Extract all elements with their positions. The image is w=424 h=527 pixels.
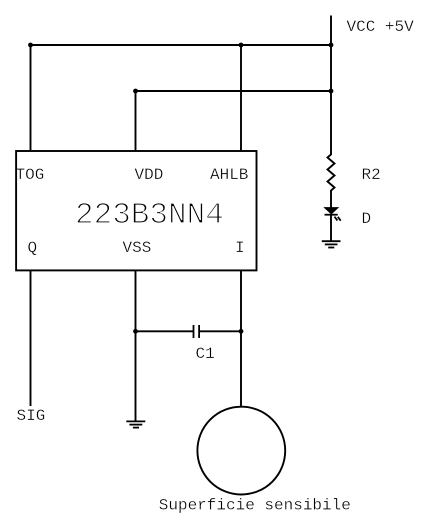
svg-text:Superficie sensibile: Superficie sensibile	[159, 497, 351, 515]
svg-text:Q: Q	[28, 239, 38, 257]
svg-text:D: D	[362, 210, 372, 228]
wire LED to ground	[330, 215, 332, 241]
junction dot AHLB on VCC rail	[239, 43, 244, 48]
svg-text:223B3NN4: 223B3NN4	[75, 198, 224, 233]
wire Q pin to SIG	[30, 270, 32, 406]
junction dot VCC wire on top rail	[329, 43, 334, 48]
svg-text:VCC +5V: VCC +5V	[347, 18, 415, 36]
svg-text:SIG: SIG	[17, 407, 46, 425]
svg-text:C1: C1	[196, 345, 215, 363]
junction dot VDD rail corner	[133, 89, 138, 94]
svg-text:R2: R2	[362, 166, 381, 184]
svg-text:TOG: TOG	[16, 166, 45, 184]
junction dot VCC wire on second rail	[329, 89, 334, 94]
junction dot VSS capacitor	[133, 329, 138, 334]
IC U1 223B3NN4 body	[16, 151, 256, 270]
LED D	[325, 208, 341, 221]
wire AHLB pin vertical	[240, 45, 242, 151]
wire capacitor left	[136, 330, 194, 332]
wire VSS pin to ground	[135, 270, 137, 421]
ground below LED	[322, 241, 341, 247]
wire top horizontal VCC rail	[31, 44, 332, 46]
wire VDD pin vertical	[135, 91, 137, 151]
wire resistor to LED	[330, 191, 332, 208]
junction dot TOG rail corner	[28, 43, 33, 48]
svg-text:I: I	[235, 239, 245, 257]
svg-text:VSS: VSS	[123, 239, 152, 257]
svg-text:AHLB: AHLB	[210, 166, 248, 184]
capacitor C1	[194, 325, 200, 338]
wire second horizontal VDD rail	[136, 90, 332, 92]
resistor R2	[328, 154, 335, 192]
sensor circle	[197, 407, 285, 495]
svg-text:VDD: VDD	[135, 166, 164, 184]
wire TOG pin vertical	[30, 45, 32, 151]
wire capacitor right	[199, 330, 241, 332]
junction dot I capacitor	[239, 329, 244, 334]
wire VCC vertical	[330, 16, 332, 155]
wire I pin to sensor	[240, 270, 242, 407]
ground below VSS	[126, 421, 145, 427]
